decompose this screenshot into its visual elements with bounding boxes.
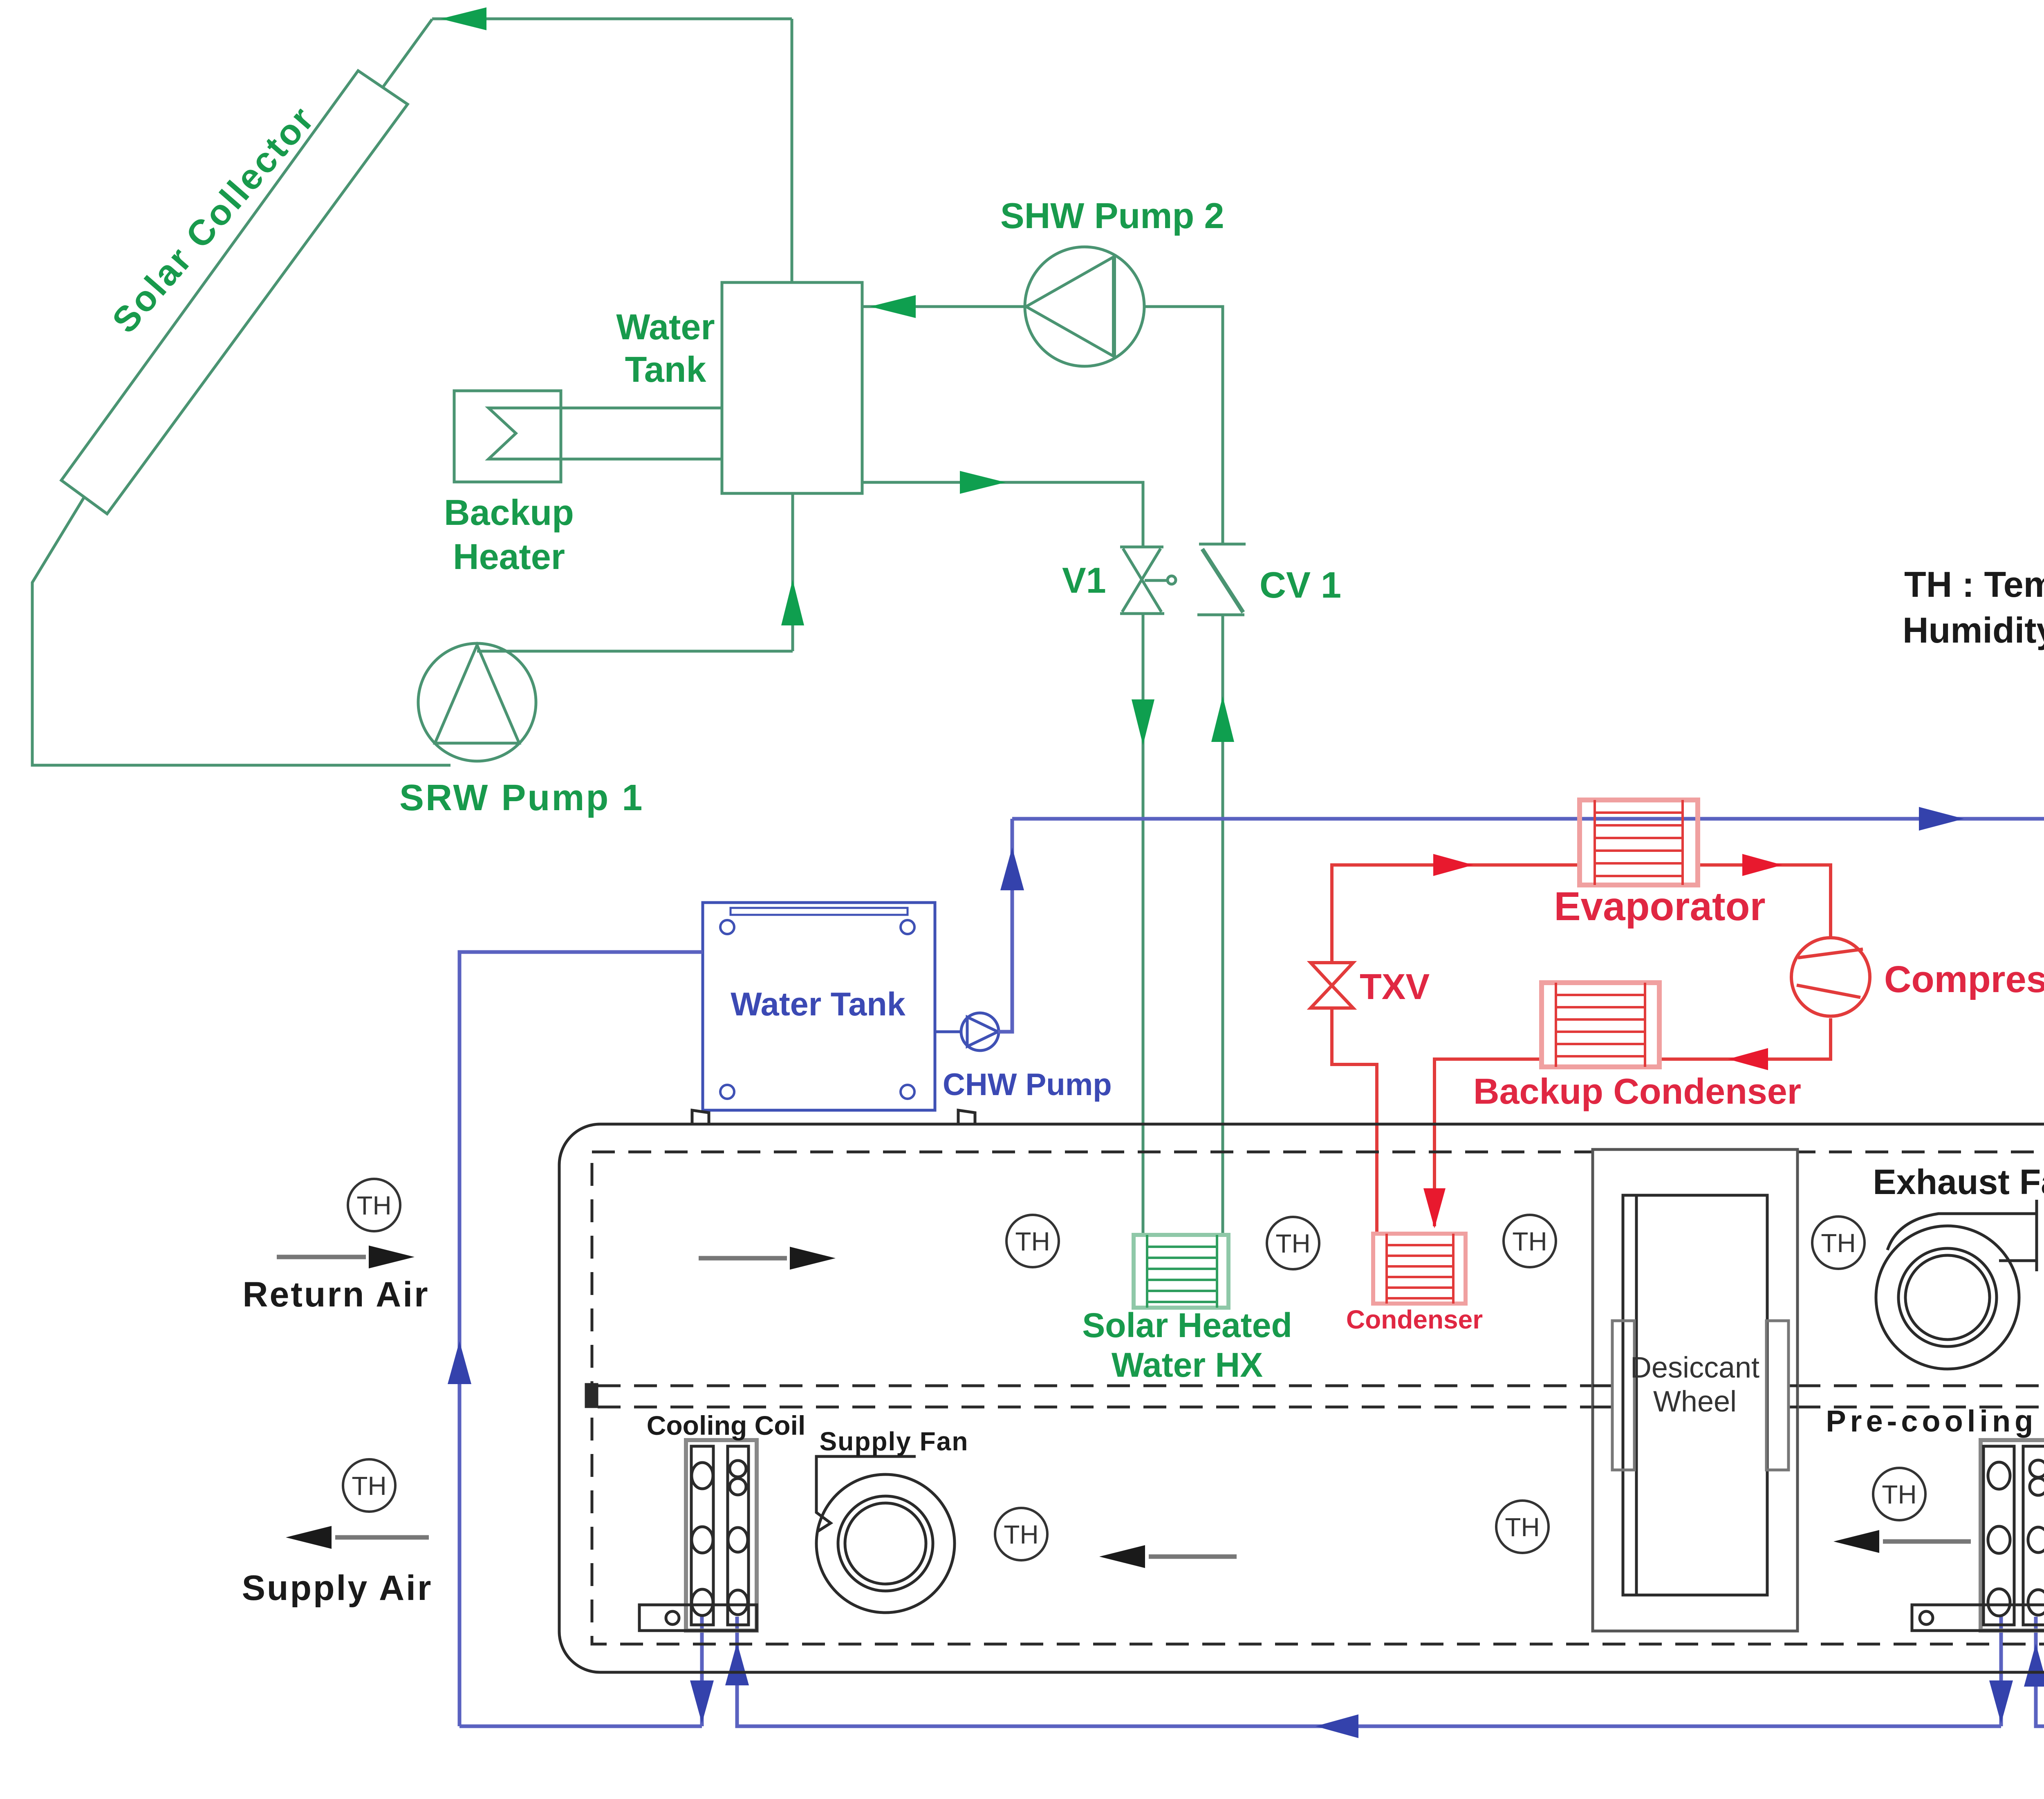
wire collector bottom to SRW pump [32,497,450,765]
svg-text:Exhaust Fan: Exhaust Fan [1873,1163,2044,1202]
chilled water tank [703,903,935,1110]
air arrow lower-right shaft [1883,1539,1971,1544]
arrow blue down from pre-cooling coil [1989,1680,2013,1723]
air arrowhead return [369,1246,415,1268]
pre-cooling coil [1981,1440,2044,1631]
svg-text:Evaporator: Evaporator [1554,884,1765,929]
supply fan [816,1456,955,1613]
arrow blue right on top header [1919,807,1964,831]
backup condenser HX [1542,983,1659,1067]
wheel bearing right [1766,1321,1788,1470]
evaporator HX [1580,800,1698,885]
solar collector [61,71,408,514]
pipe cooling coil outlet down [700,1617,704,1726]
arrow tank output right [960,471,1006,494]
air arrow upper-in shaft [699,1256,787,1261]
compressor [1791,938,1870,1016]
pipe backup condenser to condenser [1434,1059,1542,1226]
svg-text:TH: TH [1512,1227,1547,1256]
pipe top blue header [1012,817,2044,821]
tank mounting brackets [692,1110,975,1124]
partition dashed line upper [598,1385,2044,1387]
arrow blue up left riser [448,1341,471,1384]
valve TXV [1311,963,1353,1008]
svg-text:CV 1: CV 1 [1260,565,1341,606]
svg-text:TXV: TXV [1360,966,1430,1007]
partition dashed line lower [598,1406,2044,1409]
partition stubs at desiccant housing [1593,1386,1797,1407]
pipe compressor down to backup condenser [1659,1018,1831,1059]
air arrowhead supply [286,1526,332,1549]
svg-text:Backup Condenser: Backup Condenser [1473,1071,1801,1111]
wire tank lower-right to V1 riser [862,482,1143,547]
svg-text:Water Tank: Water Tank [731,986,906,1023]
arrow blue left on bottom run [1316,1714,1358,1738]
wire tank bottom down [791,493,794,651]
svg-text:Supply Air: Supply Air [242,1568,433,1608]
svg-text:TH: TH [1275,1229,1310,1258]
svg-text:TH: TH [1821,1228,1856,1258]
arrow into green tank right [870,295,916,318]
svg-text:Water: Water [616,307,715,347]
arrow blue down from cooling coil [690,1680,714,1723]
check valve CV1 [1197,544,1246,615]
pipe condenser up to TXV [1332,1008,1377,1234]
air arrowhead lower-right [1833,1530,1879,1553]
pre-cooling coil drain tray [1912,1605,2044,1631]
svg-text:Wheel: Wheel [1653,1385,1737,1418]
svg-text:Pre-cooling Coil: Pre-cooling Coil [1826,1404,2044,1438]
AHU inner dashed border [592,1152,2044,1644]
svg-text:Solar Heated: Solar Heated [1082,1306,1292,1344]
arrow green top-left [441,7,486,30]
heater element [489,408,722,459]
arrow V1 line down [1132,699,1154,745]
pipe pre-cooling coil outlet down [1999,1617,2003,1726]
pipe CHW pump up to supply header [998,819,1012,1032]
svg-text:CHW Pump: CHW Pump [943,1067,1112,1102]
arrow blue up into pre-cooling coil [2024,1644,2044,1687]
svg-text:TH: TH [352,1471,386,1501]
pipe evaporator to compressor [1698,865,1831,939]
svg-text:SHW Pump 2: SHW Pump 2 [1000,195,1224,236]
air arrowhead lower-in [1099,1545,1145,1568]
wire collector-top to corner [383,19,432,87]
solar heated water HX [1134,1235,1228,1308]
svg-text:SRW Pump 1: SRW Pump 1 [399,777,644,818]
svg-text:Heater: Heater [453,536,565,577]
TH sensor circles [343,1177,2044,1560]
arrow up into green tank bottom [781,580,804,625]
AHU outer casing [559,1124,2044,1672]
arrow blue up CHW riser [1000,847,1024,890]
svg-text:Condenser: Condenser [1346,1305,1483,1334]
svg-text:Desiccant: Desiccant [1630,1351,1759,1384]
svg-text:Cooling Coil: Cooling Coil [647,1410,806,1441]
wire tank right to SHW pump [862,305,1025,308]
condenser HX [1373,1234,1466,1304]
wire V1 down to solar HX [1142,614,1145,1235]
svg-text:Compressor: Compressor [1884,959,2044,1000]
backup heater box [454,391,561,482]
svg-text:TH: TH [356,1191,391,1220]
wire right vertical into green tank top [791,19,793,282]
svg-text:V1: V1 [1062,560,1106,600]
svg-text:TH: TH [1015,1227,1050,1256]
svg-text:Humidity Sensor: Humidity Sensor [1903,610,2044,650]
air arrow lower-in shaft [1149,1555,1237,1559]
svg-text:Tank: Tank [625,349,707,390]
svg-text:TH: TH [1505,1512,1540,1542]
label water tank (solar) [616,307,715,390]
air arrowhead upper-in [790,1247,836,1270]
cooling coil [686,1440,757,1631]
arrow red down into condenser [1423,1188,1446,1228]
wire CV1 up line from solar HX [1221,615,1224,1235]
partition end caps [586,1385,2044,1407]
wire top horizontal [432,18,792,20]
arrow red evap to compressor [1742,854,1782,876]
cooling coil drain tray [639,1605,757,1631]
svg-text:TH : Temperature and: TH : Temperature and [1904,564,2044,605]
arrow red into backup condenser [1728,1048,1768,1070]
svg-text:Backup: Backup [444,492,574,533]
wire SHW pump to CV1 riser [1144,307,1223,544]
label solar heated water HX [1082,1306,1292,1384]
pipe TXV to evaporator [1332,865,1580,963]
svg-text:TH: TH [1882,1480,1916,1509]
label desiccant wheel [1630,1351,1759,1418]
pipe bottom left run [459,1725,702,1728]
water tank (solar) [722,282,862,493]
wheel bearing left [1612,1321,1634,1470]
svg-text:Supply Fan: Supply Fan [820,1427,969,1456]
arrow red to evaporator [1433,854,1473,876]
arrow blue up into cooling coil [725,1642,749,1685]
arrow CV1 line up [1211,696,1234,742]
pipe bottom to pre-cooling coil inlet [2036,1617,2044,1726]
CHW pump [935,1013,999,1051]
svg-text:TH: TH [1004,1520,1038,1549]
SHW pump 2 [1025,247,1144,366]
wire SRW pump outlet to tank riser [477,650,793,653]
pipe tank left to return riser [459,952,703,1726]
label backup heater [444,492,574,577]
SRW pump 1 [418,643,536,761]
svg-text:Water HX: Water HX [1112,1346,1263,1384]
valve V1 [1120,547,1176,614]
label TH legend [1903,564,2044,650]
svg-text:Return Air: Return Air [242,1275,429,1314]
air arrow return shaft [277,1255,366,1259]
desiccant wheel housing [1593,1149,1797,1631]
pipe bottom middle run to cooling coil inlet [737,1617,2001,1726]
air arrow supply shaft [335,1535,429,1540]
desiccant wheel [1623,1195,1767,1595]
exhaust fan [1876,1200,2037,1369]
